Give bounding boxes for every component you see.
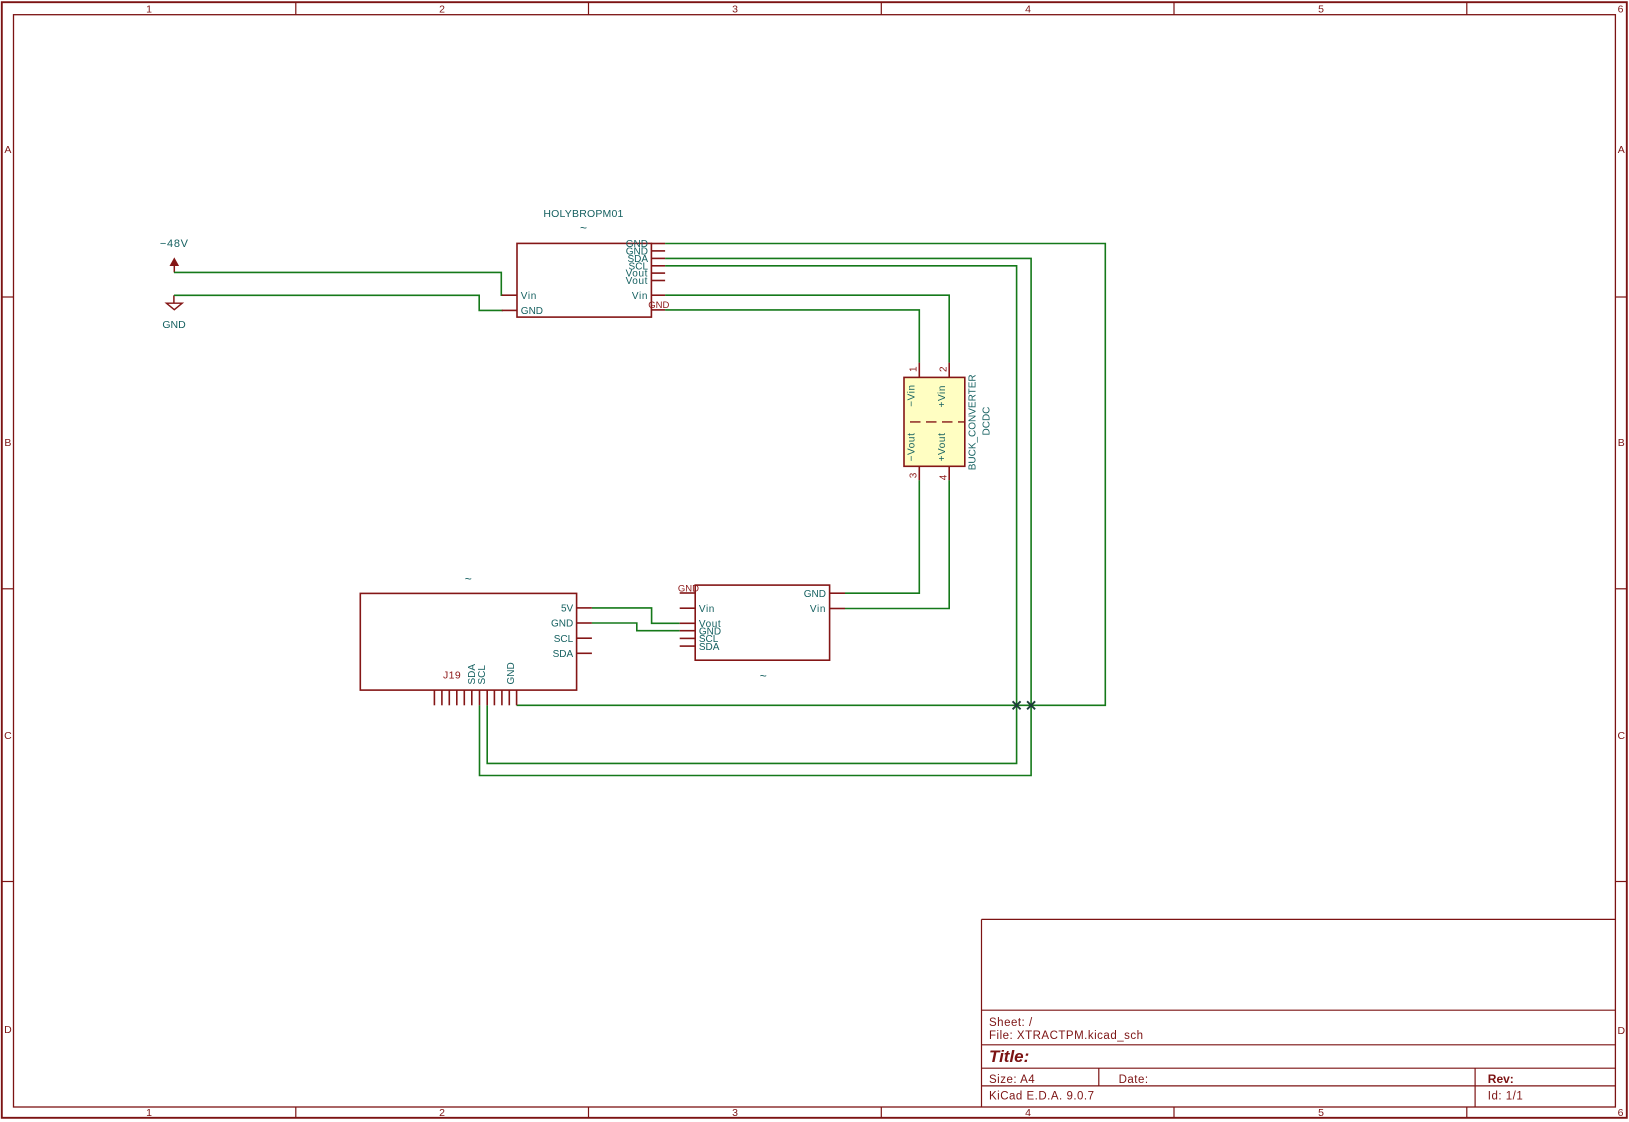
svg-text:Vin: Vin — [810, 604, 826, 615]
svg-text:−48V: −48V — [160, 238, 189, 250]
svg-text:5: 5 — [1318, 1107, 1324, 1119]
svg-text:GND: GND — [521, 306, 543, 317]
svg-text:−Vout: −Vout — [907, 433, 918, 462]
svg-text:D: D — [1618, 1025, 1626, 1037]
svg-text:DCDC: DCDC — [981, 407, 992, 436]
svg-text:3: 3 — [732, 1107, 738, 1119]
svg-text:4: 4 — [938, 474, 949, 480]
svg-text:B: B — [1618, 437, 1625, 449]
svg-text:J19: J19 — [443, 669, 461, 681]
buck converter DCDC body — [904, 377, 965, 466]
svg-text:Id: 1/1: Id: 1/1 — [1488, 1090, 1523, 1102]
ground symbol GND — [162, 295, 186, 331]
svg-text:GND: GND — [804, 589, 826, 600]
svg-text:B: B — [4, 437, 11, 449]
svg-text:Vin: Vin — [632, 291, 648, 302]
svg-text:GND: GND — [506, 662, 517, 684]
svg-text:+Vin: +Vin — [937, 385, 948, 408]
HOLYBROPM01 right pins GND,GND,SDA,SCL,Vout,Vout,Vin — [626, 239, 666, 310]
PM02 right pins GND, Vin — [804, 589, 845, 615]
wire GND: HOLYBROPM01 GND to buck converter -Vin — [665, 310, 919, 363]
power symbol -48V — [160, 238, 189, 273]
svg-text:SCL: SCL — [554, 634, 574, 645]
wire: buck -Vout to module PM02 right GND — [845, 480, 919, 593]
connector J19 body — [360, 593, 576, 690]
svg-text:GND: GND — [551, 619, 573, 630]
svg-text:~: ~ — [465, 572, 472, 586]
svg-text:4: 4 — [1025, 1107, 1031, 1119]
wire GND: J19 GND to module PM02 GND (left) — [592, 623, 680, 631]
svg-text:SDA: SDA — [553, 649, 574, 660]
svg-text:3: 3 — [908, 472, 919, 478]
svg-text:SDA: SDA — [699, 642, 720, 653]
svg-text:1: 1 — [908, 366, 919, 372]
svg-text:+Vout: +Vout — [937, 433, 948, 462]
J19 bottom pins row — [434, 662, 517, 705]
svg-text:C: C — [4, 730, 12, 742]
module PM02 body — [695, 585, 829, 660]
module HOLYBROPM01 body — [517, 243, 651, 317]
svg-text:A: A — [4, 144, 11, 156]
buck converter pin 4 (+Vout) — [937, 433, 949, 481]
svg-text:Sheet: /: Sheet: / — [989, 1017, 1033, 1029]
svg-text:File: XTRACTPM.kicad_sch: File: XTRACTPM.kicad_sch — [989, 1030, 1144, 1042]
wire SDA net: HOLYBROPM01 SDA to J19 bottom SDA pin — [480, 258, 1032, 775]
svg-text:Title:: Title: — [989, 1047, 1029, 1066]
svg-text:HOLYBROPM01: HOLYBROPM01 — [543, 208, 623, 220]
wire crossing marker at SCL x GND — [1013, 701, 1021, 709]
svg-text:~: ~ — [580, 221, 587, 235]
svg-text:Vout: Vout — [626, 276, 648, 287]
svg-text:Size: A4: Size: A4 — [989, 1074, 1035, 1086]
svg-text:~: ~ — [760, 669, 767, 683]
svg-text:6: 6 — [1618, 3, 1624, 15]
buck converter pin 2 (+Vin) — [937, 363, 949, 408]
svg-text:3: 3 — [732, 3, 738, 15]
svg-text:KiCad E.D.A. 9.0.7: KiCad E.D.A. 9.0.7 — [989, 1090, 1095, 1102]
svg-text:BUCK_CONVERTER: BUCK_CONVERTER — [968, 374, 979, 470]
buck converter pin 1 (-Vin) — [907, 363, 920, 407]
svg-text:1: 1 — [146, 3, 152, 15]
PM02 left pins GND, Vin, Vout, GND, SCL, SDA — [680, 593, 722, 653]
wire -48V to HOLYBROPM01 Vin — [174, 272, 503, 295]
wire GND to HOLYBROPM01 GND — [174, 295, 503, 310]
svg-text:GND: GND — [162, 319, 186, 331]
svg-text:6: 6 — [1618, 1107, 1624, 1119]
svg-text:Vin: Vin — [699, 604, 715, 615]
svg-text:4: 4 — [1025, 3, 1031, 15]
wire 5V net: J19 5V to module PM02 Vout — [592, 608, 680, 623]
svg-text:5V: 5V — [561, 604, 574, 615]
svg-text:2: 2 — [938, 366, 949, 372]
svg-text:1: 1 — [146, 1107, 152, 1119]
svg-text:SCL: SCL — [477, 665, 488, 685]
svg-text:5: 5 — [1318, 3, 1324, 15]
svg-text:2: 2 — [439, 1107, 445, 1119]
J19 right pins 5V, GND, SCL, SDA — [551, 604, 592, 660]
wire GND net: HOLYBROPM01 GND pin to J19 bottom GND pin — [517, 244, 1106, 706]
svg-text:C: C — [1618, 730, 1626, 742]
svg-text:−Vin: −Vin — [907, 384, 918, 407]
buck converter pin 3 (-Vout) — [907, 433, 920, 481]
svg-text:Date:: Date: — [1119, 1074, 1149, 1086]
wire crossing marker at SDA x GND — [1027, 701, 1035, 709]
svg-text:Vin: Vin — [521, 291, 537, 302]
wire Vin net: HOLYBROPM01 Vin to buck converter +Vin — [665, 295, 949, 363]
svg-text:Rev:: Rev: — [1488, 1072, 1514, 1086]
HOLYBROPM01 left pins Vin, GND — [502, 291, 543, 317]
wire: buck +Vout to module PM02 right Vin — [845, 480, 949, 608]
svg-text:D: D — [4, 1024, 12, 1036]
svg-text:2: 2 — [439, 3, 445, 15]
wire SCL net: HOLYBROPM01 SCL to J19 bottom SCL pin — [487, 266, 1016, 764]
svg-text:A: A — [1618, 144, 1625, 156]
